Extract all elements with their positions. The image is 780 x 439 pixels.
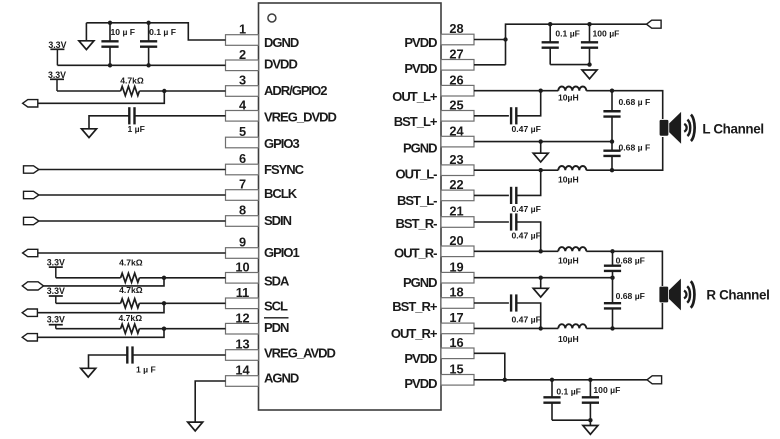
ground (PVDD top decoupling) — [582, 70, 597, 79]
svg-text:18: 18 — [449, 285, 463, 300]
svg-text:3.3V: 3.3V — [47, 286, 65, 296]
junction OUT_R+ / BST_R+ — [539, 326, 543, 330]
ground (DGND rail) — [79, 23, 94, 50]
connector ADR/GPIO2 (output arrow) — [23, 100, 38, 107]
svg-text:0.68 µ F: 0.68 µ F — [619, 142, 651, 152]
inductor L2 10uH (OUT_L-) — [558, 166, 586, 170]
pin 10 box — [226, 273, 259, 284]
connector GPIO1 (output arrow) — [23, 249, 38, 256]
wire C5/C6 bottoms — [550, 64, 589, 66]
pin 28 box — [441, 34, 474, 45]
svg-text:PGND: PGND — [403, 275, 437, 290]
svg-text:ADR/GPIO2: ADR/GPIO2 — [264, 83, 327, 98]
connector FSYNC (input arrow) — [24, 166, 39, 173]
svg-text:4.7kΩ: 4.7kΩ — [119, 285, 143, 295]
inductor L1 10uH (OUT_L+) — [558, 87, 586, 91]
wire C10 to OUT_L- node — [516, 170, 540, 195]
svg-text:PVDD: PVDD — [404, 35, 437, 50]
wire pin 21 BST_R- to capacitor C11 — [474, 221, 509, 223]
svg-text:SDA: SDA — [264, 273, 290, 288]
junction C16 top — [588, 378, 592, 382]
pin 3 box — [226, 86, 259, 97]
svg-text:10: 10 — [235, 260, 249, 275]
wire pin 25 BST_L+ to capacitor C7 — [474, 115, 509, 117]
wire pin 17 OUT_R+ to inductor — [474, 327, 558, 329]
capacitor C12 0.68uF (R- filter) — [604, 251, 621, 277]
junction PGND R ground tap — [539, 276, 543, 280]
pin 13 box — [226, 350, 259, 361]
resistor R1 4.7k pull-up (ADR/GPIO2) — [121, 86, 140, 95]
svg-text:OUT_L-: OUT_L- — [396, 167, 438, 182]
wire 3.3V to resistor (SDA) — [56, 277, 121, 279]
3.3V supply (PDN pull-up) — [47, 314, 65, 328]
svg-text:DGND: DGND — [264, 35, 299, 50]
junction C15 top — [550, 378, 554, 382]
3.3V supply (SCL pull-up) — [47, 286, 65, 303]
wire pin 23 OUT_L- to inductor — [474, 169, 558, 171]
svg-text:100 µF: 100 µF — [593, 28, 620, 38]
svg-text:PVDD: PVDD — [404, 61, 437, 76]
wire C4 to ground — [89, 355, 128, 368]
wire pin 4 to capacitor C3 — [135, 115, 226, 117]
wire resistor to pin 10 SDA — [139, 277, 225, 279]
wire pin 15 PVDD rail — [474, 379, 647, 381]
3.3V supply (DVDD) — [48, 40, 66, 65]
wire C3 to ground — [89, 116, 129, 129]
svg-text:0.1 µ F: 0.1 µ F — [149, 27, 176, 37]
svg-text:10 µ F: 10 µ F — [111, 27, 136, 37]
capacitor C3 1uF (VREG_DVDD) — [129, 107, 134, 124]
wire FSYNC — [39, 169, 226, 171]
junction OUT_L+ / BST_L+ — [539, 89, 543, 93]
connector PVDD supply (bottom) — [647, 376, 662, 384]
junction C5 top — [548, 22, 552, 26]
svg-text:OUT_L+: OUT_L+ — [392, 89, 438, 104]
svg-text:13: 13 — [235, 337, 249, 352]
svg-text:BST_R+: BST_R+ — [392, 299, 438, 314]
wire pin 27 PVDD — [474, 64, 506, 66]
svg-text:10µH: 10µH — [558, 93, 579, 103]
svg-text:0.68 µF: 0.68 µF — [616, 255, 645, 265]
junction PVDD 28 — [503, 37, 507, 41]
resistor R4 4.7k pull-up (PDN) — [121, 324, 140, 333]
svg-text:100 µF: 100 µF — [593, 385, 620, 395]
svg-text:15: 15 — [449, 362, 463, 377]
svg-text:BCLK: BCLK — [264, 186, 298, 201]
ground (PGND L) — [533, 142, 548, 162]
pin 24 box — [441, 136, 474, 147]
ground (VREG_DVDD) — [82, 129, 97, 138]
pin 9 box — [226, 248, 259, 259]
svg-text:24: 24 — [449, 123, 464, 138]
svg-text:28: 28 — [449, 21, 463, 36]
svg-text:10µH: 10µH — [558, 255, 579, 265]
svg-text:0.1 µF: 0.1 µF — [556, 386, 581, 396]
capacitor C1 10uF lead/plates — [101, 23, 118, 66]
svg-text:SDIN: SDIN — [264, 213, 292, 228]
wire C11 to OUT_R- node — [516, 222, 540, 251]
capacitor C11 0.47uF (BST_R-) — [511, 213, 516, 230]
pin 18 box — [441, 298, 474, 309]
inductor L4 10uH (OUT_R+) — [558, 324, 586, 328]
connector PVDD supply (top) — [647, 20, 662, 28]
connector SCL (output arrow) — [22, 309, 37, 316]
svg-text:22: 22 — [449, 177, 463, 192]
svg-text:6: 6 — [239, 151, 246, 166]
pin 5 box — [226, 137, 259, 148]
capacitor C4 1uF (VREG_AVDD) — [127, 346, 132, 363]
pin 2 box — [226, 60, 259, 71]
svg-text:3: 3 — [239, 73, 246, 88]
svg-text:8: 8 — [239, 203, 246, 218]
resistor R3 4.7k pull-up (SCL) — [121, 299, 140, 308]
svg-text:5: 5 — [239, 124, 246, 139]
wire C14 to OUT_R+ node — [516, 303, 540, 328]
svg-text:25: 25 — [449, 98, 463, 113]
connector SDIN (input arrow) — [24, 217, 39, 224]
capacitor C15 0.1uF (PVDD bottom) — [543, 380, 560, 420]
junction OUT_L- filtered node — [610, 168, 614, 172]
pin 14 box — [226, 376, 259, 387]
capacitor C7 0.47uF (BST_L+) — [511, 107, 516, 124]
svg-text:GPIO3: GPIO3 — [264, 136, 300, 151]
svg-text:10µH: 10µH — [558, 174, 579, 184]
capacitor C8 0.68uF (L+ filter) — [603, 91, 620, 142]
wire PVDD tie 28-27 up to supply rail — [506, 24, 647, 65]
capacitor C10 0.47uF (BST_L-) — [511, 187, 516, 204]
svg-text:R Channel: R Channel — [706, 287, 769, 302]
svg-text:23: 23 — [449, 152, 463, 167]
svg-text:20: 20 — [449, 233, 463, 248]
connector SDA (bidirectional) — [22, 282, 43, 290]
svg-text:1: 1 — [239, 22, 246, 37]
pin 12 name PDN with overline — [264, 318, 289, 335]
wire L2 to speaker corner — [586, 137, 662, 170]
wire SCL node to connector — [37, 303, 164, 312]
svg-text:DVDD: DVDD — [264, 57, 297, 72]
svg-text:0.47 µF: 0.47 µF — [512, 124, 541, 134]
junction PVDD 16/15 — [503, 378, 507, 382]
svg-text:BST_L+: BST_L+ — [394, 114, 438, 129]
inductor L3 10uH (OUT_R-) — [558, 247, 586, 251]
svg-text:4: 4 — [239, 98, 247, 113]
svg-text:12: 12 — [235, 310, 249, 325]
capacitor C6 100uF (PVDD top) — [581, 24, 598, 64]
wire 3.3V to resistor (PDN) — [56, 328, 121, 330]
svg-text:PGND: PGND — [403, 141, 437, 156]
pin 6 box — [226, 164, 259, 175]
ground (VREG_AVDD) — [81, 368, 96, 377]
wire pin 20 OUT_R- to inductor — [474, 250, 558, 252]
resistor R2 4.7k pull-up (SDA) — [121, 273, 140, 282]
wire pin 28 PVDD — [474, 39, 506, 41]
wire pin 16 PVDD — [474, 353, 505, 380]
capacitor C2 0.1uF lead/plates — [140, 23, 157, 66]
wire DGND rail to pin 1 — [86, 23, 225, 40]
pin 21 box — [441, 217, 474, 228]
svg-text:10µH: 10µH — [558, 334, 579, 344]
wire resistor to pin 3 — [139, 90, 225, 92]
wire GPIO1 — [38, 252, 226, 254]
junction node SDA — [162, 276, 166, 280]
wire resistor to pin 11 SCL — [139, 302, 225, 304]
junction C1 top — [108, 21, 112, 25]
capacitor C9 0.68uF (L- filter) — [603, 142, 620, 171]
wire PDN node to connector — [37, 329, 164, 338]
svg-text:21: 21 — [449, 204, 463, 219]
junction OUT_R- / BST_R- — [539, 249, 543, 253]
ground (PVDD bottom decoupling) — [583, 420, 598, 434]
pin-1 indicator circle — [268, 14, 276, 22]
wire C15/C16 bottoms — [552, 419, 590, 421]
svg-text:BST_L-: BST_L- — [397, 193, 437, 208]
svg-text:GPIO1: GPIO1 — [264, 245, 300, 260]
wire C7 to OUT_L+ node — [516, 91, 540, 116]
svg-text:1 µ F: 1 µ F — [136, 365, 156, 375]
junction PGND / C12 — [610, 276, 614, 280]
svg-text:3.3V: 3.3V — [47, 257, 65, 267]
svg-text:AGND: AGND — [264, 371, 299, 386]
wire L3 to speaker corner — [586, 251, 662, 286]
svg-text:PVDD: PVDD — [404, 351, 437, 366]
wire L4 to speaker corner — [586, 303, 662, 328]
junction PGND / C8 — [610, 139, 614, 143]
svg-text:11: 11 — [236, 285, 250, 300]
speaker L Channel — [660, 112, 695, 144]
pin 27 box — [441, 60, 474, 71]
wire ADR node to connector — [38, 91, 164, 103]
connector BCLK (input arrow) — [24, 191, 39, 198]
speaker R Channel — [659, 279, 694, 311]
wire resistor to pin 12 PDN — [139, 328, 225, 330]
junction OUT_R+ filtered node — [610, 326, 614, 330]
IC U1 body (28-pin audio amplifier) — [259, 3, 442, 410]
junction C1 bottom — [108, 63, 112, 67]
svg-text:17: 17 — [449, 310, 463, 325]
svg-text:1 µF: 1 µF — [128, 124, 145, 134]
3.3V supply (ADR pull-up) — [48, 70, 66, 91]
junction OUT_R- filtered node — [610, 249, 614, 253]
svg-text:16: 16 — [449, 335, 463, 350]
pin 15 box — [441, 375, 474, 386]
junction C2 bottom — [146, 63, 150, 67]
svg-text:VREG_AVDD: VREG_AVDD — [264, 346, 336, 361]
wire SDIN — [39, 220, 226, 222]
junction C6 top — [587, 22, 591, 26]
svg-text:BST_R-: BST_R- — [396, 216, 438, 231]
wire pin 19 PGND — [474, 277, 613, 279]
wire pin 18 BST_R+ to capacitor C14 — [474, 302, 509, 304]
svg-text:0.47 µF: 0.47 µF — [512, 230, 541, 240]
svg-text:19: 19 — [449, 259, 463, 274]
junction node SCL — [162, 301, 166, 305]
svg-text:0.68 µF: 0.68 µF — [616, 291, 645, 301]
junction OUT_L+ filtered node — [610, 89, 614, 93]
svg-text:VREG_DVDD: VREG_DVDD — [264, 110, 337, 125]
pin 22 box — [441, 190, 474, 201]
pin 12 box — [226, 323, 259, 334]
capacitor C16 100uF (PVDD bottom) — [582, 380, 599, 420]
pin 1 box — [226, 35, 259, 46]
pin 25 box — [441, 111, 474, 122]
svg-text:7: 7 — [239, 177, 246, 192]
connector PDN (output arrow) — [22, 334, 37, 341]
svg-text:PVDD: PVDD — [404, 376, 437, 391]
svg-text:9: 9 — [239, 235, 246, 250]
svg-text:3.3V: 3.3V — [48, 70, 66, 80]
ground (PGND R) — [533, 278, 548, 297]
pin 23 box — [441, 165, 474, 176]
pin 8 box — [226, 216, 259, 227]
capacitor C5 0.1uF (PVDD top) — [542, 24, 559, 64]
pin 7 box — [226, 190, 259, 201]
svg-text:FSYNC: FSYNC — [264, 162, 305, 177]
wire 3.3V to resistor (SCL) — [56, 302, 121, 304]
junction node PDN — [162, 327, 166, 331]
svg-text:L Channel: L Channel — [702, 121, 763, 136]
svg-text:4.7kΩ: 4.7kΩ — [119, 257, 143, 267]
junction C2 top — [146, 21, 150, 25]
pin 20 box — [441, 246, 474, 257]
junction OUT_L- / BST_L- — [539, 168, 543, 172]
pin 19 box — [441, 272, 474, 283]
svg-text:3.3V: 3.3V — [47, 314, 65, 324]
pin 11 box — [226, 298, 259, 309]
pin 4 box — [226, 111, 259, 122]
svg-text:0.47 µF: 0.47 µF — [512, 314, 541, 324]
svg-text:3.3V: 3.3V — [48, 40, 66, 50]
wire pin 14 AGND to ground — [195, 381, 225, 422]
svg-text:OUT_R+: OUT_R+ — [391, 326, 438, 341]
pin 26 box — [441, 85, 474, 96]
svg-text:OUT_R-: OUT_R- — [394, 246, 437, 261]
svg-text:SCL: SCL — [264, 299, 288, 314]
wire pin 13 to capacitor C4 — [133, 354, 226, 356]
junction node ADR — [162, 89, 166, 93]
wire pin 22 BST_L- to capacitor C10 — [474, 194, 509, 196]
wire pin 26 OUT_L+ to inductor — [474, 90, 558, 92]
svg-text:0.68 µ F: 0.68 µ F — [619, 97, 651, 107]
svg-text:4.7kΩ: 4.7kΩ — [118, 313, 142, 323]
wire SDA node to connector — [44, 278, 165, 286]
svg-text:26: 26 — [449, 72, 463, 87]
pin 16 box — [441, 348, 474, 359]
junction C6 bottom — [587, 62, 591, 66]
wire pin 24 PGND — [474, 141, 612, 143]
pin 17 box — [441, 323, 474, 334]
3.3V supply (SDA pull-up) — [47, 257, 65, 278]
wire 3.3V to resistor — [57, 90, 121, 92]
junction C16 bottom — [588, 418, 592, 422]
svg-text:14: 14 — [235, 363, 250, 378]
svg-text:4.7kΩ: 4.7kΩ — [120, 75, 144, 85]
wire 3.3V to pin 2 DVDD — [57, 64, 225, 66]
capacitor C13 0.68uF (R+ filter) — [604, 278, 621, 329]
ground (AGND) — [188, 422, 203, 431]
svg-text:0.47 µF: 0.47 µF — [512, 204, 541, 214]
svg-text:PDN: PDN — [264, 320, 289, 335]
svg-text:2: 2 — [239, 47, 246, 62]
junction PGND ground tap — [539, 139, 543, 143]
svg-text:0.1 µF: 0.1 µF — [555, 28, 580, 38]
wire L1 to speaker corner — [586, 91, 662, 119]
svg-text:27: 27 — [449, 47, 463, 62]
capacitor C14 0.47uF (BST_R+) — [511, 294, 516, 311]
wire BCLK — [39, 194, 226, 196]
